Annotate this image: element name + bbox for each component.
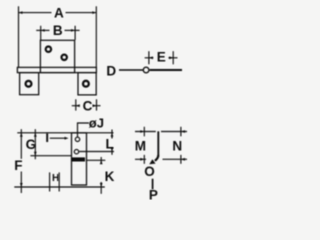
extension line B right [74,26,76,40]
extension line B left [40,26,42,40]
extension line A left [18,6,20,67]
dimension L bottom arrowhead [111,148,114,152]
dimension F line upper part [20,129,22,159]
svg-text:K: K [105,169,115,184]
hinge cross strip [17,67,96,72]
svg-text:F: F [14,158,22,173]
clip hook arrow tip [149,159,155,164]
dimension C right arrowhead [93,104,97,107]
svg-text:B: B [53,23,63,38]
dimension E left extension [148,51,150,64]
clip view top dimension line [135,131,156,133]
svg-text:øJ: øJ [89,116,104,131]
left leg [20,73,39,95]
pin side view label D leader line [119,69,143,71]
hole in tab upper-left [46,47,51,52]
label I arrow [50,137,67,139]
dimension K top extension line [87,159,106,161]
svg-text:M: M [135,139,146,154]
right leg [78,73,96,95]
dimension A left arrowhead [19,11,23,14]
pin hole circle lower [74,150,78,154]
dimension L dim line stubs [111,130,113,139]
clip bottom left ext [143,155,145,164]
dimension C right extension [96,99,98,110]
dimension A line [19,12,52,14]
svg-text:D: D [106,63,116,78]
label P leader line [152,179,154,190]
bottom extension line [14,186,105,188]
strip section (solid) [72,157,86,161]
svg-text:G: G [26,137,37,152]
svg-text:H: H [52,173,59,184]
clip hook foot [155,155,159,161]
hole in left leg [26,81,32,87]
clip top right ext [180,127,182,137]
dimension K bottom arrowhead [100,183,103,187]
pin head circle [143,67,149,73]
dimension F bottom arrowhead [20,183,23,187]
clip top left ext [143,127,145,137]
dimension G top arrowhead [34,133,37,137]
hinge leaf top tab outline [40,40,74,72]
svg-text:O: O [144,164,155,179]
dimension C left extension [75,99,77,110]
side view leaf bar [72,133,87,185]
dimension L ext bottom line [79,151,114,153]
plate-top extension line [30,155,71,157]
dimension A right arrowhead [92,11,96,14]
dimension E right arrowhead [169,56,173,59]
extension line A right [95,6,97,67]
clip body vertical [157,131,159,156]
dimension B right arrowhead [71,29,75,32]
svg-text:P: P [149,187,158,200]
dimension L top arrowhead [111,133,114,137]
svg-text:E: E [157,49,166,64]
pin shaft line [150,69,182,71]
dimension C left arrowhead [76,104,80,107]
dimension B left arrowhead [41,29,45,32]
clip bottom right ext [180,155,182,164]
svg-text:C: C [83,99,93,114]
side view top extension line [17,132,113,134]
hole in tab lower-right [61,55,66,60]
label J leader elbow [78,123,90,137]
svg-text:N: N [172,139,182,154]
svg-text:L: L [106,136,114,151]
dimension B line [36,29,49,31]
dimension G line [34,129,36,159]
dimension F line lower part [20,172,22,194]
dimension K top arrowhead [100,160,103,164]
dimension E right extension [172,51,174,64]
dimension K dim line stubs [100,157,102,164]
pin hole circle upper [75,137,79,141]
svg-text:I: I [45,130,49,145]
clip view bottom dimension line [135,158,146,160]
dimension H left extension [49,172,51,191]
hole in right leg [83,81,89,87]
dimension E left arrowhead [149,56,153,59]
dimension F top arrowhead [20,133,23,137]
dimension H right extension [58,172,60,191]
dimension G bottom arrowhead [34,152,37,156]
svg-text:A: A [54,6,64,21]
